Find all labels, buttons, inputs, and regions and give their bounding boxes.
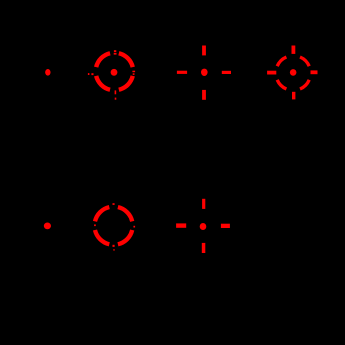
reticle G top bar	[202, 199, 205, 209]
reticle B right tick	[132, 71, 135, 75]
reticle A: plain red dot (top-left)	[45, 69, 50, 76]
reticle D center dot	[290, 69, 297, 76]
reticle G bottom bar	[202, 243, 206, 253]
reticle F bottom tick	[113, 245, 115, 247]
reticle F top tick	[113, 203, 115, 205]
reticle E: plain red dot (bottom-left)	[44, 223, 51, 230]
reticle F: open circle with tiny cardinal ticks (bottom row, 2nd)	[95, 207, 132, 244]
reticle D bottom tick	[292, 92, 295, 100]
reticle F left tick	[94, 224, 96, 226]
reticle D left tick	[267, 71, 276, 75]
reticle C right bar	[222, 71, 231, 74]
reticle G right bar	[221, 224, 230, 228]
reticle D: circle-dot with thick outer ticks (top-right)	[277, 57, 309, 89]
reticle B left tick	[88, 73, 94, 75]
reticle B bottom tick	[115, 90, 117, 99]
reticle C center dot	[201, 69, 208, 76]
reticle G left bar	[176, 223, 186, 227]
reticle G center dot	[200, 223, 207, 230]
reticle C bottom bar	[202, 90, 206, 100]
reticle F right tick	[133, 226, 135, 228]
reticle C: crosshair dot with 4 bars (top row, 3rd)	[177, 46, 231, 100]
reticle B top tick	[114, 50, 117, 54]
reticle C left bar	[177, 71, 187, 74]
reticle B: circle-dot with small cardinal ticks (top row, 2nd)	[96, 53, 133, 90]
reticle D top tick	[292, 46, 296, 54]
reticle B center dot	[111, 69, 118, 76]
reticle D right tick	[311, 70, 318, 74]
reticle G: crosshair dot with 4 bars (bottom row, 3rd)	[176, 199, 230, 253]
reticle C top bar	[202, 46, 206, 56]
